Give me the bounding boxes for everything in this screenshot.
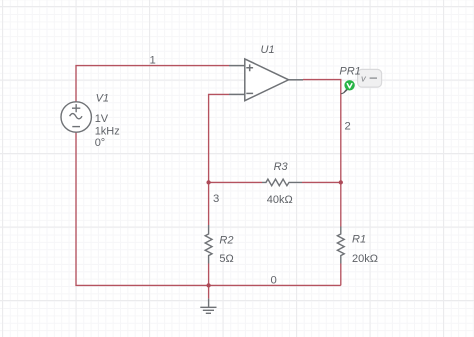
svg-text:U1: U1 [261,44,275,56]
junction node 0 [206,283,210,287]
wire R2 bottom to ground node 0 [208,264,210,286]
svg-text:0°: 0° [95,137,106,149]
voltage source V1 [61,102,91,132]
probe PR1 circle [344,80,354,90]
probe box dash [370,77,377,79]
svg-text:3: 3 [213,193,219,205]
wire node 3 down to R2 top [208,182,210,225]
svg-text:20kΩ: 20kΩ [352,253,378,265]
wire ground stub [208,285,210,298]
resistor R3 [262,179,302,186]
svg-text:1: 1 [150,55,156,67]
svg-text:2: 2 [345,120,351,132]
wire R1 bottom to bottom rail [340,264,342,286]
svg-text:R3: R3 [274,161,289,173]
wire op-amp - input to node 3 [209,94,229,182]
svg-text:R2: R2 [219,234,233,246]
probe PR1 pointer [341,89,348,94]
svg-text:V1: V1 [96,93,109,105]
resistor R2 [205,225,212,264]
wire node 3 to R3 left lead [209,181,262,183]
resistor R1 [337,227,344,264]
wire V1 top to op-amp + input [76,66,229,102]
wire op-amp output to node 2 vertical [303,80,341,183]
wire node 2 down to R1 top [340,182,342,226]
probe PR1 v glyph [347,84,352,88]
svg-text:0: 0 [271,275,277,287]
svg-text:R1: R1 [352,234,366,246]
op-amp U1 [229,59,303,101]
junction node 3 [206,180,210,184]
svg-text:1kHz: 1kHz [95,125,120,137]
junction node 2 [339,180,343,184]
probe PR1 value box [358,69,382,87]
svg-text:1V: 1V [95,113,109,125]
wire bottom rail node 0 [76,132,341,285]
svg-text:5Ω: 5Ω [219,253,233,265]
svg-text:PR1: PR1 [339,66,360,78]
svg-text:40kΩ: 40kΩ [267,194,293,206]
wire R3 right lead to node 2 [302,181,341,183]
ground [200,299,216,314]
